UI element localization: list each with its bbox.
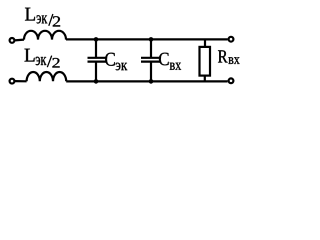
inductor L2 (bottom Lэк/2 coil) <box>27 72 67 81</box>
capacitor C2 Cвх top lead <box>150 39 152 57</box>
capacitor C2 Cвх bottom lead <box>150 62 152 82</box>
resistor R1 Rвх top lead <box>204 39 206 47</box>
capacitor C1 Cэк top lead <box>95 39 97 57</box>
wire top rail <box>66 38 228 40</box>
terminal T2 (bottom-left input) <box>10 79 15 84</box>
node junction dot Cвх top <box>149 37 154 42</box>
label R1 subscript вх <box>228 57 239 64</box>
capacitor C2 Cвх plates <box>141 58 161 62</box>
label L2 digit 2 <box>52 58 59 68</box>
wire T2 to L2 <box>15 80 27 82</box>
label L2 subscript эк <box>36 57 47 65</box>
resistor R1 Rвх bottom lead <box>204 76 206 82</box>
label L1 subscript эк <box>37 15 48 23</box>
capacitor C1 Cэк plates <box>88 58 107 62</box>
capacitor C1 Cэк bottom lead <box>95 62 97 82</box>
label L1 slash <box>49 14 53 26</box>
node junction dot Cэк bottom <box>94 79 99 84</box>
label C1 subscript эк <box>116 63 128 71</box>
label L1 digit 2 <box>53 16 60 26</box>
label C2 subscript вх <box>170 63 181 70</box>
label L1 value letter L <box>25 8 35 21</box>
inductor L1 (top Lэк/2 coil) <box>24 31 66 40</box>
label R1 value letter R <box>218 50 228 62</box>
node junction dot Cвх bottom <box>149 79 154 84</box>
terminal T1 (top-left input) <box>10 38 15 43</box>
label C1 value letter C <box>105 53 115 66</box>
terminal T4 (bottom-right) <box>229 78 234 83</box>
wire T1 to L1 <box>15 38 24 41</box>
node junction dot Cэк top <box>94 37 99 42</box>
resistor R1 Rвх body <box>200 47 211 76</box>
wire bottom rail <box>66 80 227 82</box>
label C2 value letter C <box>159 53 169 66</box>
terminal T3 (top-right) <box>229 37 234 42</box>
label L2 value letter L <box>25 49 35 62</box>
label L2 slash <box>47 56 51 68</box>
